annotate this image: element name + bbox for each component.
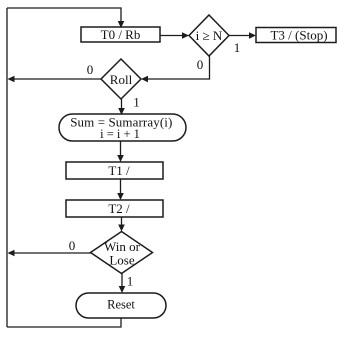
- process stadium Reset: [76, 293, 166, 318]
- svg-text:0: 0: [87, 62, 94, 77]
- arrowhead into bus (Win/Lose 0): [8, 250, 15, 256]
- svg-text:Reset: Reset: [107, 298, 135, 312]
- arrowhead into Roll right vertex: [141, 76, 148, 82]
- svg-text:T1 /: T1 /: [108, 163, 130, 178]
- svg-text:0: 0: [69, 238, 76, 253]
- wire: T2 to Win or Lose: [121, 217, 123, 230]
- state box T3/(Stop): [256, 28, 336, 43]
- process stadium Sum = Sumarray(i): [59, 114, 186, 141]
- wire: top horizontal from bus to entry of T0/Rb: [7, 8, 121, 26]
- wire: Roll branch 0 to bus: [9, 78, 101, 80]
- svg-text:Roll: Roll: [110, 72, 133, 87]
- state box T1/: [66, 162, 163, 179]
- wire: Win/Lose branch 0 to bus: [9, 252, 91, 254]
- state box T2/: [66, 200, 163, 217]
- arrowhead into Sum top: [118, 108, 125, 115]
- decision diamond Roll: [101, 59, 141, 99]
- svg-text:T2 /: T2 /: [108, 201, 130, 216]
- wire: i>=N branch 0 down and left into Roll: [143, 56, 210, 79]
- state box T0/Rb: [81, 27, 160, 42]
- svg-text:1: 1: [127, 274, 134, 289]
- svg-text:1: 1: [234, 40, 241, 55]
- arrowhead into T3 left edge: [249, 32, 256, 38]
- wire: T1 to T2: [120, 179, 122, 198]
- wire: Reset bottom to bus along page bottom: [7, 318, 121, 327]
- decision diamond i >= N: [189, 15, 229, 56]
- wire: T0/Rb to decision i>=N: [160, 35, 187, 37]
- wire: Sum to T1: [120, 141, 122, 160]
- svg-text:0: 0: [197, 57, 204, 72]
- svg-text:T3 / (Stop): T3 / (Stop): [270, 28, 327, 43]
- arrowhead into T2 top: [117, 193, 124, 200]
- svg-text:i ≥ N: i ≥ N: [196, 28, 223, 43]
- svg-text:i = i + 1: i = i + 1: [100, 127, 140, 141]
- svg-text:1: 1: [133, 95, 140, 110]
- decision diamond Win or Lose: [91, 232, 153, 274]
- arrowhead into i>=N left vertex: [182, 32, 189, 38]
- arrowhead into Reset top: [119, 286, 126, 293]
- arrowhead into T0/Rb top: [118, 21, 125, 28]
- svg-text:T0 / Rb: T0 / Rb: [101, 27, 141, 42]
- arrowhead into Win/Lose top vertex: [118, 225, 125, 232]
- wire: i>=N to T3 (branch 1): [229, 35, 254, 37]
- wire: Win/Lose branch 1 down to Reset: [121, 274, 123, 292]
- wire: left feedback bus vertical: [6, 8, 8, 327]
- svg-text:Lose: Lose: [109, 253, 135, 268]
- wire: Roll branch 1 down to Sum: [121, 99, 123, 112]
- arrowhead into T1 top: [117, 155, 124, 162]
- arrowhead into bus (Roll 0): [8, 76, 15, 82]
